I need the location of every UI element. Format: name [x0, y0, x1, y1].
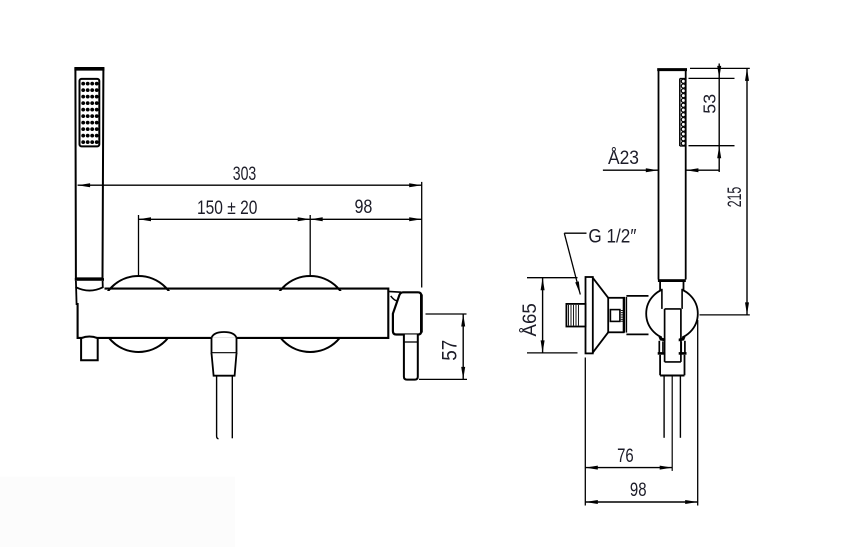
svg-text:76: 76 [617, 446, 634, 467]
dimension 76 [585, 446, 672, 470]
lever stem [404, 335, 418, 380]
lever handle knob [393, 292, 422, 334]
union band [624, 297, 626, 333]
faint watermark remnant [0, 477, 235, 547]
handle lower stub below bar [81, 337, 98, 361]
dimension Ø65 [520, 278, 578, 353]
extension line right (x=421.7) [421, 182, 423, 288]
dimension 98 side [585, 480, 697, 504]
svg-text:53: 53 [700, 94, 720, 114]
holder arm section [626, 296, 648, 335]
svg-text:303: 303 [233, 164, 257, 185]
svg-text:Å65: Å65 [520, 303, 541, 336]
shower hose side view [664, 377, 680, 471]
valve body [608, 298, 623, 333]
dimension 57 [419, 314, 467, 379]
dimension 303 [78, 164, 422, 187]
shower hose front view [217, 376, 233, 439]
extension line right circle center [309, 215, 311, 276]
spray face with nozzles [80, 79, 100, 146]
wall escutcheon circle right [272, 276, 348, 352]
G 1/2 leader [564, 227, 636, 295]
hose nut [660, 355, 684, 376]
wall escutcheon circle left [101, 276, 177, 352]
handshower side view [657, 69, 687, 280]
wall flange plate [586, 277, 593, 353]
extension line left circle center [138, 215, 140, 276]
svg-text:98: 98 [630, 480, 647, 501]
threaded nipple [566, 304, 585, 327]
svg-text:150 ± 20: 150 ± 20 [197, 198, 257, 219]
dimension 53 [689, 64, 735, 173]
holder clamp cheeks below ball [658, 341, 687, 354]
dimension 215 [690, 68, 750, 315]
hose outlet connector under bar [212, 332, 237, 376]
svg-text:Å23: Å23 [608, 148, 639, 169]
flange cone [593, 278, 608, 353]
svg-text:G 1/2″: G 1/2″ [588, 227, 636, 248]
svg-text:57: 57 [439, 340, 462, 361]
lever handle cone at bar right end [388, 291, 401, 300]
handshower handle front view [74, 68, 104, 278]
wall plane extension line [584, 358, 586, 506]
ball outer extension line [697, 320, 699, 506]
handle below band [660, 282, 683, 291]
dimension 98 [310, 197, 422, 221]
svg-text:98: 98 [354, 197, 372, 218]
handshower holder collar [75, 280, 104, 306]
dimension 150 ± 20 [139, 198, 311, 221]
dimension Ø23 [603, 148, 719, 172]
handle joint band [658, 279, 686, 282]
mixer bar body [78, 289, 389, 338]
spray nozzles side view [680, 79, 686, 147]
svg-text:215: 215 [725, 187, 746, 208]
holder ball [646, 287, 698, 362]
